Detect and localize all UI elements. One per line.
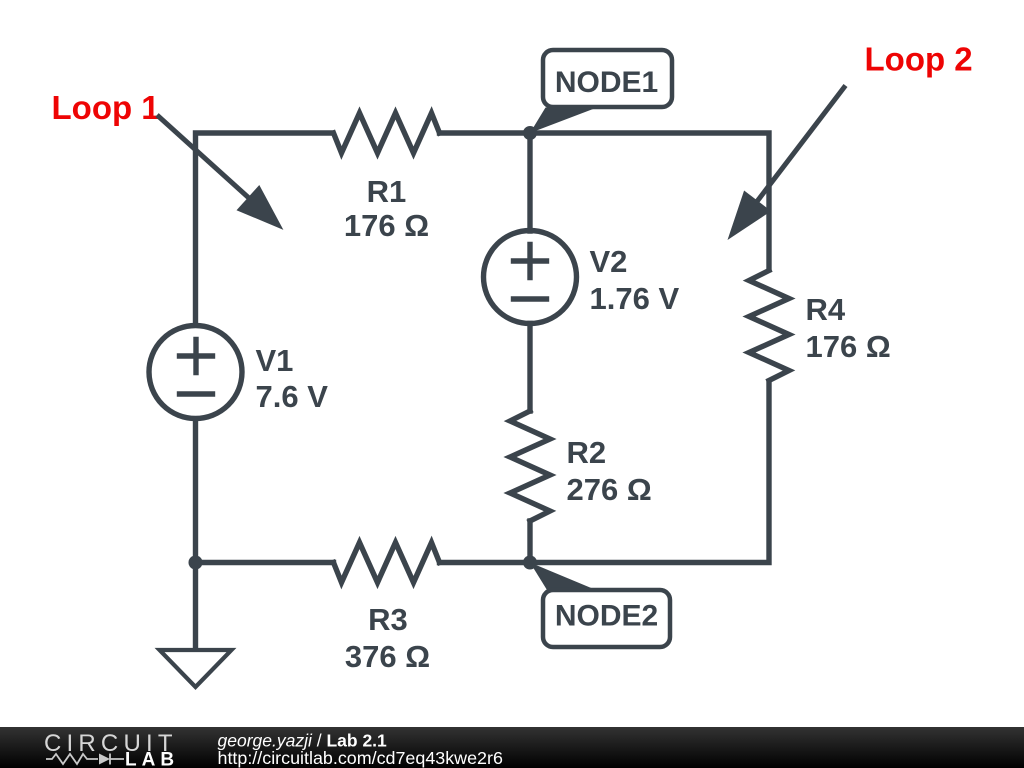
annotation Loop 2 arrow line (752, 86, 846, 209)
NODE1 callout pointer (530, 108, 597, 134)
annotation Loop 1 arrow line (157, 115, 260, 208)
wire V1 bottom to ground junction and ground stem (193, 419, 198, 651)
CircuitLab logo diode symbol (99, 754, 124, 765)
svg-text:Loop 1: Loop 1 (52, 89, 160, 126)
label R1 designator (367, 174, 407, 209)
label V1 value 7.6 V (256, 379, 329, 414)
V1 plus sign (180, 340, 213, 373)
NODE1 callout box (543, 50, 672, 107)
svg-text:1.76 V: 1.76 V (590, 281, 680, 316)
svg-text:276 Ω: 276 Ω (567, 472, 652, 507)
svg-text:376 Ω: 376 Ω (345, 639, 430, 674)
svg-text:176 Ω: 176 Ω (344, 208, 429, 243)
wire NODE1 to top-right corner and down to R4 (530, 133, 769, 271)
V2 plus sign (514, 245, 547, 278)
resistor R3 (334, 543, 440, 583)
label V1 designator (256, 343, 294, 378)
wire V2 bottom to R2 (527, 324, 532, 412)
wire top-left vertical (node A to V1 top) (196, 133, 334, 326)
V2 minus sign (514, 296, 547, 301)
label R4 value 176 ohm (806, 329, 891, 364)
wire middle vertical (NODE1 to V2 top) (527, 133, 532, 231)
svg-text:R2: R2 (567, 435, 607, 470)
V1 minus sign (180, 391, 213, 396)
footer bar (0, 727, 1024, 768)
NODE2 callout pointer (530, 563, 596, 591)
label R4 designator (806, 292, 846, 327)
wire R1 to NODE1 (440, 130, 531, 135)
resistor R4 (749, 271, 789, 381)
label V2 value 1.76 V (590, 281, 680, 316)
node NODE2 junction dot (523, 556, 537, 570)
wire right vertical lower (R4 to bottom-right corner) (530, 381, 769, 563)
footer attribution line (george.yazji / Lab 2.1) (218, 731, 388, 751)
svg-text:V2: V2 (590, 244, 628, 279)
annotation Loop 2 text (865, 41, 973, 78)
svg-text:R4: R4 (806, 292, 846, 327)
node ground junction dot (189, 556, 203, 570)
annotation Loop 1 text (52, 89, 160, 126)
label V2 designator (590, 244, 628, 279)
wire R2 to NODE2 (527, 521, 532, 563)
wire R3 to ground junction (196, 560, 334, 565)
CircuitLab logo LAB word (125, 750, 179, 768)
NODE2 label text (555, 600, 658, 633)
node NODE1 junction dot (523, 126, 537, 140)
svg-text:NODE1: NODE1 (555, 66, 658, 99)
svg-text:NODE2: NODE2 (555, 600, 658, 633)
svg-text:http://circuitlab.com/cd7eq43k: http://circuitlab.com/cd7eq43kwe2r6 (218, 748, 503, 768)
NODE1 label text (555, 66, 658, 99)
CircuitLab logo resistor squiggle (46, 754, 98, 764)
resistor R1 (334, 113, 440, 153)
label R3 designator (368, 602, 408, 637)
label R2 designator (567, 435, 607, 470)
CircuitLab logo CIRCUIT word (44, 730, 178, 757)
NODE2 callout box (543, 590, 670, 647)
svg-text:R1: R1 (367, 174, 407, 209)
resistor R2 (510, 411, 550, 521)
svg-text:LAB: LAB (125, 750, 179, 768)
voltage source V1 circle (149, 326, 242, 419)
label R3 value 376 ohm (345, 639, 430, 674)
ground (160, 650, 232, 687)
wire NODE2 to R3 (440, 560, 531, 565)
annotation Loop 1 arrowhead (237, 185, 284, 230)
svg-text:V1: V1 (256, 343, 294, 378)
svg-text:R3: R3 (368, 602, 408, 637)
label R2 value 276 ohm (567, 472, 652, 507)
annotation Loop 2 arrowhead (728, 191, 772, 241)
voltage source V2 circle (484, 231, 577, 324)
svg-text:7.6 V: 7.6 V (256, 379, 329, 414)
footer url line (218, 748, 503, 768)
label R1 value 176 ohm (344, 208, 429, 243)
svg-text:176 Ω: 176 Ω (806, 329, 891, 364)
svg-text:Loop 2: Loop 2 (865, 41, 973, 78)
